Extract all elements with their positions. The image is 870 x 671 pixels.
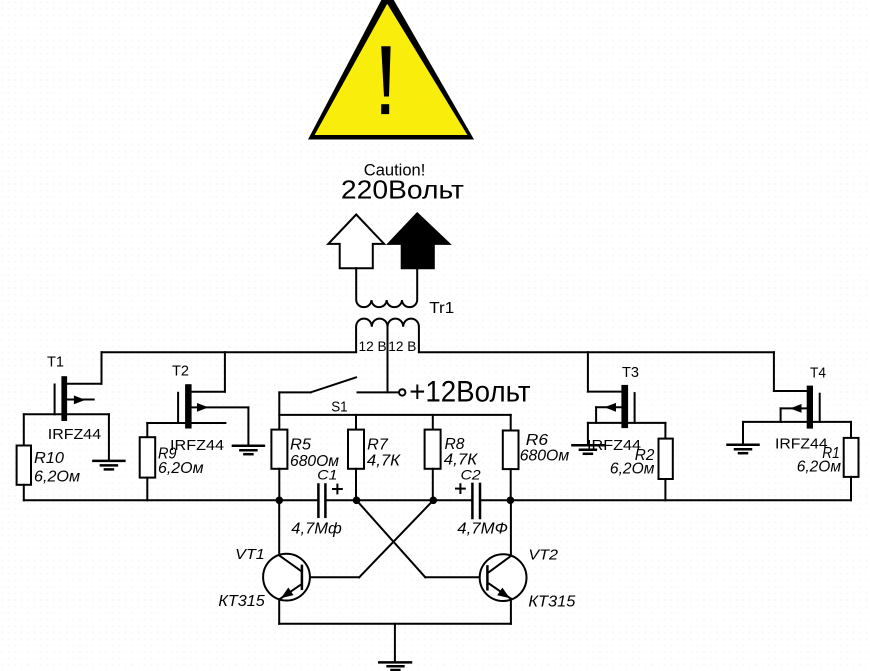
- svg-text:680Ом: 680Ом: [520, 448, 570, 465]
- svg-text:IRFZ44: IRFZ44: [587, 437, 641, 454]
- svg-text:12 В: 12 В: [388, 338, 416, 354]
- svg-text:R6: R6: [526, 432, 548, 449]
- svg-text:КТ315: КТ315: [218, 593, 264, 610]
- svg-text:+12Вольт: +12Вольт: [409, 376, 531, 409]
- svg-text:R10: R10: [34, 450, 64, 467]
- svg-text:IRFZ44: IRFZ44: [48, 426, 101, 443]
- svg-text:T4: T4: [810, 365, 826, 382]
- svg-text:T2: T2: [172, 363, 189, 380]
- svg-text:VT2: VT2: [528, 547, 558, 564]
- svg-text:IRFZ44: IRFZ44: [775, 436, 828, 453]
- svg-text:6,2Ом: 6,2Ом: [797, 459, 841, 476]
- svg-text:220Вольт: 220Вольт: [341, 174, 464, 204]
- svg-text:R5: R5: [290, 437, 311, 454]
- svg-text:6,2Ом: 6,2Ом: [34, 469, 80, 486]
- svg-text:C1: C1: [317, 467, 337, 483]
- svg-text:C2: C2: [461, 467, 481, 483]
- svg-text:VT1: VT1: [235, 546, 265, 563]
- svg-text:S1: S1: [331, 398, 347, 415]
- svg-text:Tr1: Tr1: [429, 300, 454, 317]
- svg-text:12 В: 12 В: [359, 338, 387, 354]
- svg-text:R7: R7: [367, 437, 389, 454]
- svg-text:IRFZ44: IRFZ44: [170, 437, 224, 454]
- svg-text:КТ315: КТ315: [528, 594, 575, 611]
- svg-text:4,7Мф: 4,7Мф: [291, 521, 342, 538]
- svg-text:T1: T1: [47, 354, 64, 371]
- svg-text:4,7К: 4,7К: [367, 452, 402, 469]
- svg-text:T3: T3: [622, 364, 639, 381]
- svg-text:6,2Ом: 6,2Ом: [610, 461, 655, 478]
- svg-text:6,2Ом: 6,2Ом: [158, 460, 204, 477]
- svg-text:4,7МФ: 4,7МФ: [457, 521, 508, 538]
